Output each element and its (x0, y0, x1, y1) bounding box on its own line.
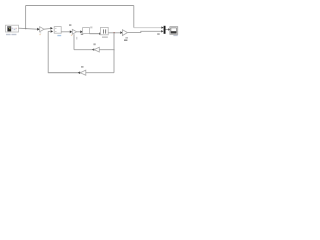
wire source to branch (18, 28, 37, 29)
arrow sum in1 (50, 27, 53, 30)
wire riser to sum in2 (48, 30, 51, 32)
block3 (101, 27, 109, 34)
label dot under gain2 (orange) (71, 35, 72, 36)
label Signal Builder (6, 34, 11, 35)
sum block (54, 27, 61, 34)
arrow sum in2 (51, 30, 54, 33)
text above block2 right (90, 27, 92, 29)
wire gain3 jog to mux in2 (128, 31, 162, 32)
arrow out of bottom gain (78, 71, 80, 74)
wire block2 to block3 (90, 33, 100, 35)
top right drop (133, 6, 135, 28)
mid gain triangle (points left) (94, 47, 99, 52)
bottom gain triangle (points left) (80, 70, 86, 75)
arrow mux in2 (161, 30, 163, 32)
gain1 triangle (40, 27, 44, 32)
top feed line (26, 5, 134, 7)
text above gain2 (69, 24, 71, 26)
label under block3 (102, 37, 108, 38)
text above bottom gain (81, 66, 84, 68)
label tick under gain1 (40, 32, 42, 33)
label under gain3 line2 (124, 40, 127, 41)
arrow into gain1 (37, 28, 39, 31)
wire drop to mux in1 (134, 27, 162, 29)
arrow into scope (168, 28, 170, 30)
gain2 triangle (72, 29, 76, 34)
arrow mux in1 (161, 26, 163, 28)
label under block2 input (81, 34, 83, 35)
wire block3 to gain3 (108, 32, 120, 34)
label under gain3 line1 (125, 37, 128, 38)
label under sum (blue) (57, 35, 61, 36)
scope block (170, 27, 178, 35)
arrow into gain3 (120, 31, 122, 34)
junction dot mid T (114, 49, 115, 50)
wire gain1 to sum (44, 28, 50, 31)
block2 (83, 28, 90, 34)
arrow out of mid gain (92, 48, 94, 50)
wire gain2 to block2 (77, 31, 81, 33)
tick under gain2 tip (76, 37, 77, 40)
branch riser up (25, 6, 27, 29)
text above mid gain (93, 43, 95, 45)
wire sum out to gain2 (61, 31, 70, 33)
junction dot branch (25, 28, 26, 29)
bottom feedback rail (48, 72, 114, 74)
label under mux (157, 33, 160, 34)
wire mux to scope (166, 29, 169, 31)
arrow into block2 (80, 30, 82, 33)
riser main branch down (113, 33, 115, 73)
riser sum feedback (48, 31, 79, 72)
arrow into gain2 (70, 30, 72, 33)
junction red dot (114, 32, 115, 33)
gain3 triangle (122, 30, 127, 36)
mux bar (164, 26, 166, 34)
label dot under gain1 (39, 34, 40, 35)
label under scope (173, 35, 177, 36)
mid feedback rail (74, 34, 114, 49)
arrow into block3 lower (99, 32, 101, 35)
source block Signal Builder (6, 25, 19, 32)
